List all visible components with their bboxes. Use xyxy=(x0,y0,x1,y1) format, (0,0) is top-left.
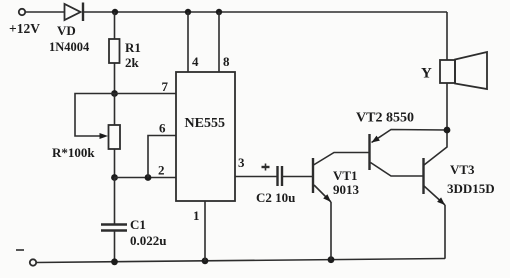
junction top rail / R1 xyxy=(112,9,118,15)
svg-text:+12V: +12V xyxy=(9,21,40,36)
wire pot bottom lead xyxy=(114,149,116,178)
junction pin2/pin6 branch xyxy=(145,174,152,181)
VT2 collector xyxy=(371,163,424,177)
VT3 emitter xyxy=(424,186,445,205)
svg-text:1: 1 xyxy=(193,208,200,223)
wire pin 6 branch xyxy=(148,136,176,178)
junction top rail / pin8 xyxy=(216,9,222,15)
capacitor C2 xyxy=(278,166,283,186)
svg-text:R*100k: R*100k xyxy=(52,145,95,160)
label minus xyxy=(16,249,24,251)
terminal +12V input xyxy=(19,9,25,15)
svg-text:3DD15D: 3DD15D xyxy=(447,181,495,196)
svg-text:NE555: NE555 xyxy=(185,116,225,131)
wire VT1 emitter to rail xyxy=(330,202,332,260)
junction bottom rail / VT1 emitter xyxy=(328,256,335,263)
wire speaker to VT2 emitter node xyxy=(446,83,448,130)
resistor R1 xyxy=(109,39,120,63)
svg-text:1N4004: 1N4004 xyxy=(49,40,90,54)
junction VT2 emitter / VT3 collector xyxy=(444,127,451,134)
terminal bottom left xyxy=(30,259,36,265)
polarity plus C2 xyxy=(262,164,270,171)
svg-text:2: 2 xyxy=(158,163,165,178)
svg-text:6: 6 xyxy=(159,121,166,136)
svg-text:VT2 8550: VT2 8550 xyxy=(356,111,414,126)
wire C2 to VT1 base xyxy=(282,176,313,178)
junction node R1/pot/pin7 xyxy=(111,90,118,97)
wire pin 4 xyxy=(187,12,189,72)
label R1 xyxy=(125,40,141,55)
svg-text:R1: R1 xyxy=(125,40,141,55)
wire VT3 emitter to rail xyxy=(444,205,446,259)
junction bottom rail / pin1 xyxy=(202,258,209,265)
junction top rail / pin4 xyxy=(185,9,191,15)
svg-text:9013: 9013 xyxy=(333,182,360,197)
svg-text:3: 3 xyxy=(238,155,245,170)
wire bottom rail xyxy=(36,259,445,263)
wire top rail xyxy=(84,11,447,13)
label 2k xyxy=(125,55,140,70)
junction bottom rail / C1 xyxy=(111,258,118,265)
label Y xyxy=(421,66,432,82)
svg-text:2k: 2k xyxy=(125,55,140,70)
label VD xyxy=(57,23,76,38)
wire pin 3 xyxy=(235,176,278,178)
pin label 7 xyxy=(162,79,169,94)
wire pin 7 xyxy=(115,93,177,95)
label C1 xyxy=(130,217,146,232)
label 1N4004 xyxy=(49,40,90,54)
VT1 emitter xyxy=(314,185,331,202)
svg-text:C1: C1 xyxy=(130,217,146,232)
VT2 emitter xyxy=(372,130,448,143)
wire pin 8 xyxy=(218,12,220,72)
svg-text:Y: Y xyxy=(421,66,432,82)
svg-text:4: 4 xyxy=(192,54,199,69)
wire pot top lead xyxy=(114,94,116,126)
wire C1 top lead xyxy=(114,178,116,225)
svg-text:8: 8 xyxy=(223,54,230,69)
svg-text:0.022u: 0.022u xyxy=(130,233,166,248)
pin label 8 xyxy=(223,54,230,69)
label 9013 xyxy=(333,182,360,197)
transistor Q2 VT2 base bar xyxy=(368,134,370,170)
label C2 10u xyxy=(256,190,295,205)
VT1 collector xyxy=(314,153,370,166)
pin label 4 xyxy=(192,54,199,69)
wire wiper loop xyxy=(75,94,115,137)
pin label 1 xyxy=(193,208,200,223)
label R*100k xyxy=(52,145,95,160)
label VT3 xyxy=(450,162,475,177)
svg-text:7: 7 xyxy=(162,79,169,94)
transistor Q1 VT1 base bar xyxy=(312,158,314,193)
wire R1 bottom lead xyxy=(114,63,116,94)
svg-text:VD: VD xyxy=(57,23,76,38)
label 0.022u xyxy=(130,233,166,248)
wire C1 bottom lead xyxy=(114,231,116,263)
VT3 collector xyxy=(424,130,447,165)
junction node pot/C1/pin2 xyxy=(111,174,118,181)
pin label 2 xyxy=(158,163,165,178)
svg-text:C2 10u: C2 10u xyxy=(256,190,295,205)
wire terminal to diode xyxy=(25,11,64,13)
wire pin 1 xyxy=(204,201,206,261)
potentiometer R*100k body xyxy=(109,125,121,149)
op-amp U1 NE555 box xyxy=(176,72,235,201)
wire pin 2 xyxy=(115,177,177,179)
svg-text:VT1: VT1 xyxy=(333,168,358,183)
label 3DD15D xyxy=(447,181,495,196)
label VT2 8550 xyxy=(356,111,414,126)
wiper arrow xyxy=(100,133,109,139)
wire R1 top lead xyxy=(114,12,116,39)
pin label 3 xyxy=(238,155,245,170)
label NE555 xyxy=(185,116,225,131)
transistor Q3 VT3 base bar xyxy=(422,158,424,194)
label VT1 xyxy=(333,168,358,183)
speaker Y xyxy=(440,52,487,89)
pin label 6 xyxy=(159,121,166,136)
label +12V xyxy=(9,21,40,36)
svg-text:VT3: VT3 xyxy=(450,162,475,177)
diode VD xyxy=(65,3,84,22)
capacitor C1 xyxy=(101,225,127,231)
wire speaker top xyxy=(446,12,448,60)
